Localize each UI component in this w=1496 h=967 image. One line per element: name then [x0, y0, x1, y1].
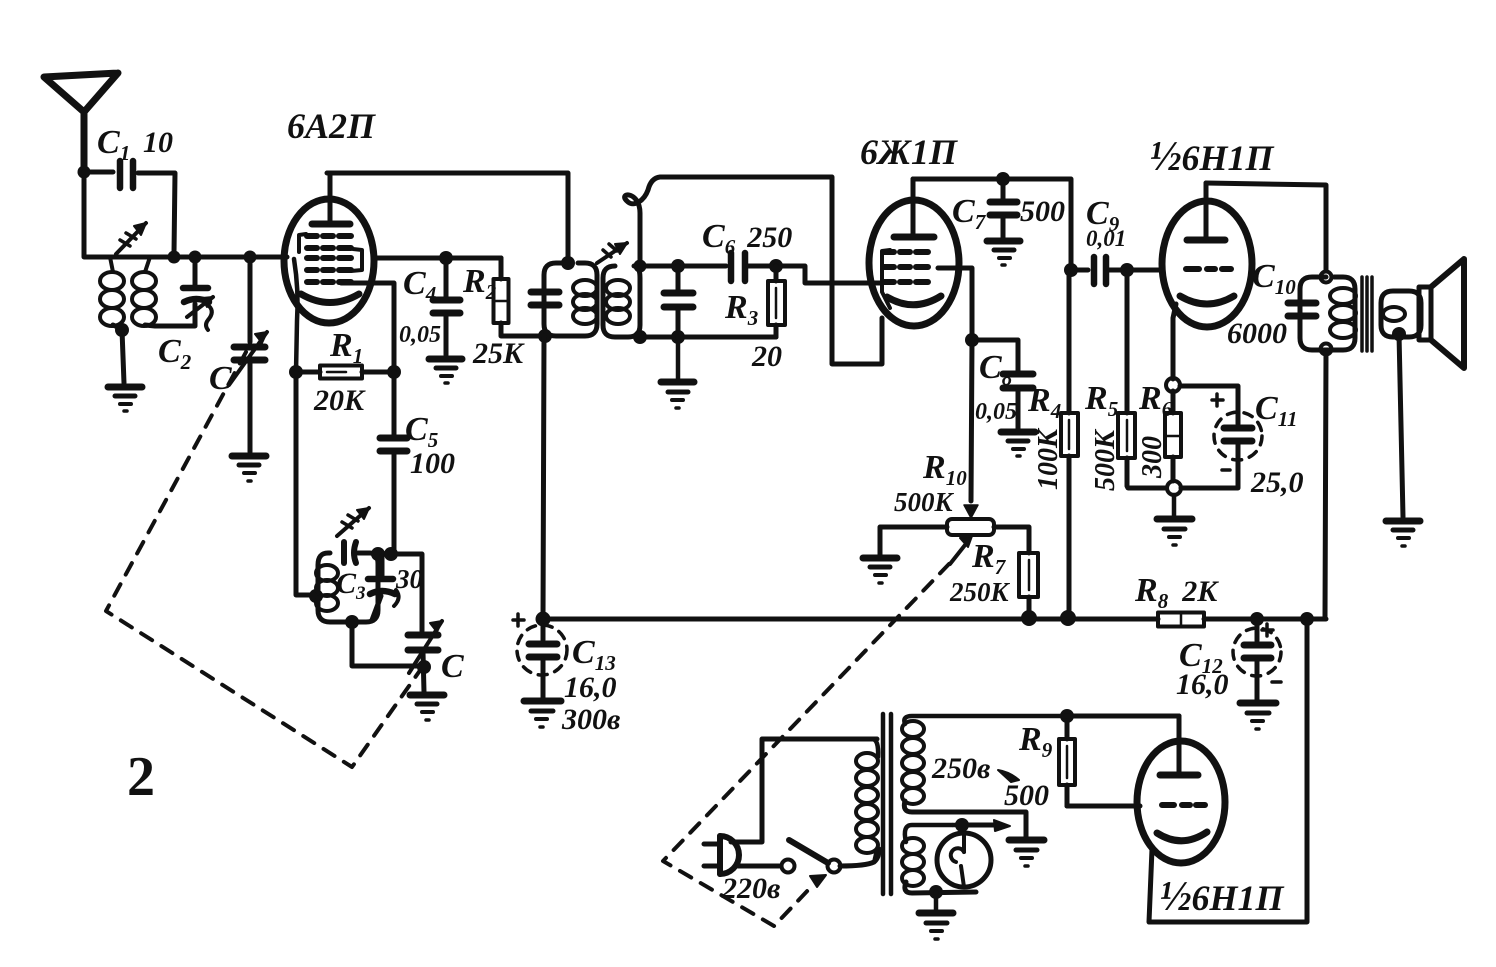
- wire T1s bottom edge: [640, 335, 776, 340]
- svg-text:C3: C3: [336, 567, 366, 604]
- svg-text:2: 2: [127, 746, 155, 808]
- ground: [524, 701, 561, 727]
- svg-text:16,0: 16,0: [1176, 668, 1229, 701]
- node C4 junction: [439, 251, 453, 265]
- node T2 top: [1321, 272, 1332, 283]
- svg-text:25,0: 25,0: [1250, 466, 1304, 499]
- node: [309, 589, 323, 603]
- transformer T3 core: [883, 714, 891, 894]
- svg-text:½6Н1П: ½6Н1П: [1160, 874, 1285, 920]
- wire B+ bus: [543, 617, 1158, 622]
- tube U2 anode: [894, 179, 934, 237]
- ground: [661, 337, 694, 408]
- capacitor C9: [1071, 257, 1127, 284]
- speaker cone: [1431, 259, 1464, 368]
- tube U1 anode: [312, 173, 350, 224]
- node: [671, 259, 685, 273]
- node: [538, 329, 552, 343]
- svg-text:C: C: [209, 360, 232, 397]
- capacitor padder on L3 top: [344, 542, 356, 563]
- svg-text:100К: 100К: [1033, 427, 1064, 490]
- potentiometer R10 feed line: [964, 340, 978, 518]
- transformer T2 core: [1362, 277, 1372, 351]
- capacitor C11 electrolytic: [1180, 386, 1262, 488]
- tube U3 cathode: [1180, 296, 1234, 304]
- potentiometer R10: [880, 519, 1029, 555]
- svg-text:C10: C10: [1252, 258, 1296, 299]
- wire T2 bottom to bus: [1325, 353, 1326, 619]
- transformer T3 primary winding: [856, 739, 878, 862]
- tuning arrow L3: [337, 508, 369, 536]
- tube U1 cathode: [301, 294, 359, 303]
- node L3 top junctions: [371, 547, 398, 561]
- svg-text:C2: C2: [158, 333, 192, 374]
- capacitor C5: [380, 372, 407, 552]
- node cathode junction: [1166, 378, 1180, 392]
- svg-text:300в: 300в: [561, 703, 620, 736]
- svg-text:R5: R5: [1084, 380, 1118, 421]
- capacitor C8: [972, 340, 1033, 429]
- dashed switch link: [663, 564, 949, 926]
- transformer T3 filament winding: [902, 825, 976, 893]
- svg-text:25K: 25K: [472, 337, 525, 370]
- antenna: [44, 73, 118, 172]
- node: [1064, 263, 1078, 277]
- ground: [919, 892, 953, 939]
- svg-text:C11: C11: [1255, 390, 1298, 431]
- resistor R1: [296, 366, 394, 379]
- resistor R9: [1059, 716, 1075, 806]
- svg-text:R1: R1: [329, 327, 363, 368]
- wiper arrow R10: [950, 536, 972, 564]
- node: [769, 259, 783, 273]
- svg-text:R3: R3: [724, 289, 758, 330]
- transformer T1 IF secondary loop: [603, 266, 640, 337]
- wire L3 to Cvar2: [391, 554, 422, 631]
- node: [1060, 709, 1074, 723]
- wire T1 secondary top curl to 6Zh1P cathode rail: [625, 177, 882, 364]
- ground: [108, 387, 142, 411]
- node C7 tap: [996, 172, 1010, 186]
- resistor R3: [768, 266, 785, 337]
- node: [561, 256, 575, 270]
- svg-text:6Ж1П: 6Ж1П: [860, 132, 958, 172]
- ground: [410, 695, 444, 720]
- tube U3 cathode lead: [1173, 304, 1176, 379]
- svg-text:0,01: 0,01: [1086, 226, 1126, 251]
- inductor L2 antenna coil secondary: [132, 257, 195, 326]
- tube U4 output loop: [1149, 619, 1307, 922]
- resistor R7: [1019, 553, 1038, 615]
- wire speaker to ground: [1399, 334, 1403, 517]
- svg-text:R7: R7: [971, 538, 1007, 579]
- transformer T3 HV secondary: [902, 716, 1179, 837]
- svg-text:20: 20: [751, 340, 782, 373]
- node speaker: [1392, 327, 1406, 341]
- node: [1120, 263, 1134, 277]
- svg-text:20K: 20K: [313, 384, 366, 417]
- ground: [1009, 840, 1044, 866]
- tube U2 6Zh1P envelope: [869, 200, 959, 326]
- ground: [1157, 495, 1192, 545]
- svg-text:300: 300: [1137, 436, 1168, 479]
- capacitor T1 secondary tuning: [664, 266, 693, 337]
- inductor L1 antenna coil primary: [100, 257, 124, 329]
- ground: [232, 456, 266, 481]
- svg-text:C8: C8: [979, 349, 1013, 390]
- ground: [1386, 521, 1420, 546]
- tuning arrow antenna coil: [116, 223, 146, 254]
- tube U4 cathode: [1157, 832, 1207, 841]
- wire grid: [1127, 268, 1161, 273]
- switch S1: [782, 840, 880, 873]
- svg-text:C7: C7: [952, 193, 987, 234]
- node: [965, 333, 979, 347]
- resistor R8: [1158, 613, 1204, 627]
- tube U1 grid brackets: [299, 234, 362, 271]
- wire C6 to U2 grid: [776, 266, 880, 283]
- svg-text:R10: R10: [922, 449, 967, 490]
- svg-text:R9: R9: [1018, 721, 1053, 762]
- capacitor C2 variable: [183, 257, 213, 330]
- capacitor C variable (tuning gang 1): [229, 257, 267, 452]
- svg-text:0,05: 0,05: [975, 399, 1017, 425]
- capacitor C1: [84, 161, 175, 253]
- tube U3 half 6N1P envelope: [1162, 201, 1252, 327]
- svg-text:500: 500: [1004, 779, 1049, 812]
- node: [417, 660, 431, 674]
- tuning arrow T1: [597, 243, 627, 263]
- svg-text:10: 10: [143, 126, 173, 159]
- wire cathode to oscillator coil: [296, 372, 314, 595]
- node L3 bottom: [345, 615, 359, 629]
- tube U4 rectifier half 6N1P envelope: [1137, 741, 1225, 863]
- capacitor C7: [990, 179, 1017, 238]
- power plug: [704, 739, 877, 874]
- tube U1 grid leads: [374, 256, 501, 261]
- node T2 bottom: [1321, 344, 1332, 355]
- svg-text:C: C: [441, 648, 464, 685]
- wire anode top rail to IF1: [327, 173, 568, 261]
- capacitor T1 primary tuning: [531, 292, 559, 305]
- tube U4 anode: [1160, 716, 1198, 775]
- speaker magnet: [1419, 287, 1431, 340]
- node main grid wire junctions: [168, 251, 257, 264]
- tube U3 anode: [1187, 183, 1225, 240]
- wire: [84, 172, 287, 257]
- svg-text:6А2П: 6А2П: [287, 106, 376, 146]
- tube U1 cathode lead: [294, 259, 298, 372]
- svg-text:100: 100: [410, 447, 455, 480]
- transformer T1 IF primary loop: [544, 263, 597, 336]
- svg-text:500: 500: [1020, 195, 1065, 228]
- capacitor C6: [731, 253, 776, 281]
- svg-text:C6250: C6250: [702, 218, 792, 259]
- node lamp bottom: [929, 885, 943, 899]
- svg-text:C4: C4: [403, 265, 436, 306]
- tube U4 grid: [1162, 802, 1205, 808]
- svg-text:250в: 250в: [931, 752, 990, 785]
- node: [633, 330, 685, 344]
- wire T1 to B+ bus: [543, 336, 544, 619]
- heater arrow: [969, 820, 1010, 831]
- capacitor C12 electrolytic: [1233, 619, 1281, 700]
- pilot lamp: [937, 825, 991, 887]
- svg-text:0,05: 0,05: [399, 322, 441, 348]
- svg-text:500K: 500K: [894, 487, 955, 517]
- capacitor C3: [368, 556, 399, 620]
- transformer T2 output primary loop: [1300, 277, 1356, 350]
- svg-text:R4: R4: [1027, 382, 1061, 423]
- ground: [863, 558, 897, 583]
- tube U2 grids: [884, 252, 928, 282]
- wire grid line to C6: [640, 264, 726, 269]
- tube U1 grids: [307, 236, 351, 282]
- tube U1 6A2P envelope: [284, 199, 374, 323]
- node coil ground junction: [115, 323, 129, 337]
- svg-text:250K: 250K: [949, 577, 1011, 607]
- node R6 bottom junction: [1167, 481, 1181, 495]
- node antenna junction: [78, 166, 91, 179]
- svg-text:R82K: R82K: [1134, 572, 1219, 613]
- capacitor C variable (tuning gang 2): [408, 621, 442, 692]
- capacitor C10: [1288, 303, 1316, 316]
- svg-text:16,0: 16,0: [564, 671, 617, 704]
- node R1 junctions: [289, 365, 401, 379]
- tube U2 grid bracket: [882, 250, 890, 308]
- svg-text:6000: 6000: [1227, 317, 1287, 350]
- wire U3 anode to output transformer: [1206, 183, 1326, 271]
- capacitor C13 electrolytic: [513, 614, 567, 698]
- dashed gang line left: [106, 352, 421, 767]
- ground: [987, 241, 1020, 265]
- ground: [429, 359, 462, 383]
- resistor R2: [494, 258, 544, 336]
- wire R9 to U4 grid: [1067, 804, 1140, 809]
- resistor R4: [1061, 270, 1078, 617]
- svg-text:½6Н1П: ½6Н1П: [1150, 134, 1275, 180]
- capacitor C4: [433, 258, 460, 355]
- tube U2 screen lead: [938, 268, 972, 340]
- svg-text:30: 30: [395, 564, 424, 594]
- ground: [1240, 703, 1276, 729]
- tube U3 grid: [1186, 266, 1231, 272]
- resistor R5: [1118, 270, 1166, 488]
- tube U2 cathode: [887, 296, 941, 305]
- wire U2 anode rail: [913, 179, 1071, 270]
- inductor L3 oscillator coil loop: [316, 553, 378, 622]
- svg-text:R2: R2: [462, 263, 497, 304]
- ground: [1001, 432, 1035, 456]
- wire HV to U4: [1067, 714, 1179, 719]
- node lamp top: [955, 818, 969, 832]
- svg-text:500К: 500К: [1090, 428, 1121, 491]
- wire: [122, 330, 124, 383]
- svg-text:C13: C13: [572, 634, 616, 675]
- node bus junctions: [536, 610, 1315, 627]
- svg-text:C1: C1: [97, 124, 130, 165]
- node T1s top: [634, 260, 647, 273]
- speaker voice coil: [1381, 291, 1421, 337]
- resistor R6: [1165, 391, 1181, 481]
- svg-text:C5: C5: [405, 411, 438, 452]
